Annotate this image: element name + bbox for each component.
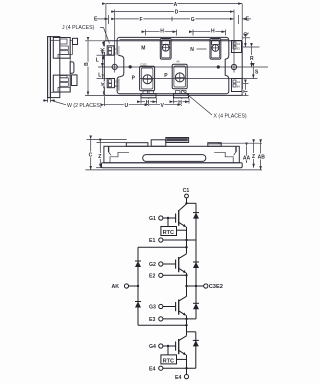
svg-text:W (2 PLACES): W (2 PLACES) [67,103,102,109]
svg-text:K: K [101,82,107,86]
svg-text:RTC: RTC [163,358,175,364]
svg-text:F: F [140,17,143,23]
svg-text:AK: AK [112,284,120,290]
svg-text:A: A [174,2,178,8]
svg-text:Q: Q [244,32,250,36]
svg-text:Z: Z [252,154,255,160]
svg-text:E: E [94,17,98,23]
svg-text:H: H [178,100,182,106]
svg-text:D: D [175,10,179,16]
svg-text:B: B [84,62,90,66]
svg-text:P: P [132,76,136,82]
svg-text:G3: G3 [149,305,156,311]
svg-text:G2: G2 [149,262,156,268]
svg-text:C3E2: C3E2 [209,284,223,290]
svg-text:E3: E3 [237,47,241,51]
svg-text:E1: E1 [149,238,155,244]
svg-text:L: L [98,72,101,78]
svg-text:V: V [161,103,165,109]
svg-text:N: N [190,47,194,53]
svg-text:H: H [211,29,215,35]
svg-text:E4: E4 [149,366,155,372]
svg-text:C3: C3 [237,42,241,46]
svg-text:E: E [246,17,250,23]
svg-text:G4: G4 [149,344,156,350]
svg-text:RTC: RTC [163,230,175,236]
svg-text:E2: E2 [149,274,155,280]
svg-text:Z: Z [98,154,101,160]
svg-text:L: L [96,58,99,64]
svg-text:H: H [146,100,150,106]
svg-text:C1: C1 [183,188,190,194]
svg-text:R: R [250,56,254,62]
svg-text:AA: AA [243,155,251,161]
svg-text:J (4 PLACES): J (4 PLACES) [62,25,95,31]
svg-text:G2: G2 [115,79,119,83]
svg-text:AB: AB [258,154,266,160]
svg-text:T: T [244,90,250,93]
svg-text:C: C [89,153,93,159]
svg-text:K: K [101,47,107,51]
svg-text:H: H [160,29,164,35]
svg-text:G1: G1 [149,216,156,222]
svg-text:E2: E2 [115,84,119,88]
svg-text:M: M [141,45,145,51]
svg-text:E4: E4 [237,85,241,89]
svg-text:AK: AK [176,59,180,63]
svg-text:E3: E3 [149,317,155,323]
svg-text:S: S [255,70,259,76]
svg-text:C2E2: C2E2 [140,62,147,66]
svg-text:G: G [191,17,195,23]
svg-text:X (4 PLACES): X (4 PLACES) [214,114,247,120]
svg-text:G4: G4 [237,80,241,84]
svg-text:U: U [125,103,129,109]
svg-text:E4: E4 [175,375,181,381]
